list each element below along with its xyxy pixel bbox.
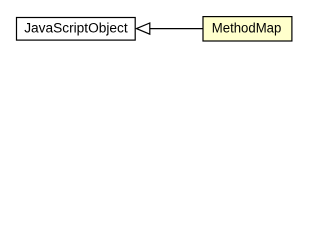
svg-text:JavaScriptObject: JavaScriptObject [24,20,128,36]
class box JavaScriptObject [17,18,136,41]
class box MethodMap [203,17,292,41]
svg-text:MethodMap: MethodMap [212,20,282,36]
inheritance hollow triangle arrowhead [137,23,150,34]
inheritance wire [150,28,203,30]
